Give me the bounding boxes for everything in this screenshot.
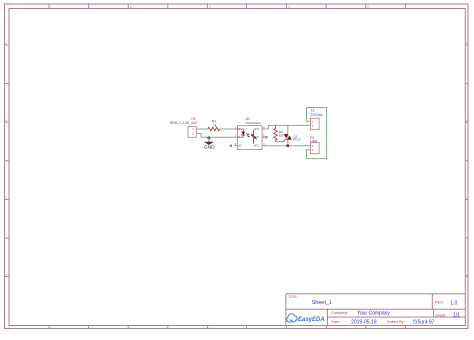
connector P1 pin stubs — [309, 121, 311, 125]
U1 pin names A K NC — [238, 127, 242, 148]
svg-text:f15ur4.97: f15ur4.97 — [413, 320, 434, 326]
svg-text:EasyEDA: EasyEDA — [298, 317, 325, 323]
svg-text:MT2: MT2 — [254, 127, 260, 131]
junction dot triac MT1 — [287, 145, 289, 147]
svg-text:Sheet_1: Sheet_1 — [312, 300, 333, 306]
U1 internal LED cathode lead — [237, 135, 243, 137]
svg-text:NC: NC — [238, 144, 242, 148]
connector P1 pin numbers — [312, 119, 314, 127]
svg-text:MOC3011M: MOC3011M — [246, 121, 262, 125]
svg-text:A: A — [5, 41, 7, 45]
wire U1 pin4 to P2 pin1 — [265, 145, 308, 147]
connector H1 pin stubs — [196, 129, 198, 134]
resistor R1 zigzag — [208, 127, 220, 130]
svg-text:1.0: 1.0 — [450, 300, 457, 306]
connector P1 box — [311, 118, 320, 130]
U1 internal LED triangle — [241, 132, 245, 135]
no-connect cross U1 pin3 — [230, 145, 232, 147]
connector P2 box — [311, 142, 320, 154]
frame column numbers bottom — [51, 326, 211, 330]
svg-text:BT137: BT137 — [293, 138, 302, 142]
triac Q1 triangles — [284, 134, 291, 139]
svg-text:HDR-F-2.54_1x2: HDR-F-2.54_1x2 — [170, 121, 197, 125]
connector H1 pin numbers — [192, 127, 194, 136]
frame column numbers top — [51, 5, 370, 9]
wire R2 bottom to triac gate — [276, 141, 284, 143]
svg-text:REV:: REV: — [435, 300, 444, 304]
U1 pin numbers left 1 2 3 — [235, 125, 237, 146]
svg-text:Date:: Date: — [331, 320, 340, 324]
svg-text:Sheet:: Sheet: — [435, 313, 446, 317]
wire U1 pin6 up to top rail — [265, 125, 308, 129]
wire H1 pin2 jog down — [199, 134, 235, 138]
U1 internal LED cathode bar — [241, 134, 245, 136]
U1 internal triac bar — [253, 130, 255, 144]
svg-text:1/1: 1/1 — [453, 313, 460, 319]
EasyEDA logo cloud — [287, 314, 298, 322]
U1 internal triac gate stub — [256, 138, 257, 139]
triac Q1 vertical line — [287, 125, 289, 145]
svg-text:Load: Load — [310, 139, 318, 143]
svg-text:2019-05-18: 2019-05-18 — [351, 319, 377, 325]
junction dot at GND node — [208, 137, 211, 140]
resistor R2 vertical with leads — [274, 125, 277, 141]
U1 right pin stubs — [262, 129, 265, 146]
U1 internal triac triangles — [251, 134, 256, 138]
wire mains loop P1 pin1 to P2 pin2 — [306, 108, 326, 159]
wire R1 to U1 pin1 — [220, 128, 235, 130]
frame row letters left — [5, 41, 8, 277]
U1 emission arrow 1 — [246, 133, 249, 134]
frame ticks top edge — [49, 4, 405, 9]
svg-text:1k: 1k — [213, 123, 217, 127]
svg-text:MT1: MT1 — [254, 144, 260, 148]
title block outline — [286, 294, 465, 326]
connector P2 pin numbers — [312, 144, 314, 152]
svg-text:A: A — [466, 41, 468, 45]
frame ticks right edge — [465, 45, 468, 277]
wire H1 pin1 to R1 — [199, 128, 208, 130]
U1 internal LED anode lead — [237, 129, 243, 132]
connector H1 box — [188, 127, 196, 138]
svg-text:220Vac: 220Vac — [311, 113, 323, 117]
frame ticks left edge — [5, 45, 10, 277]
connector P2 pin stubs — [309, 146, 311, 150]
frame row letters right — [466, 41, 469, 277]
svg-text:GND: GND — [204, 144, 215, 150]
frame ticks bottom edge — [49, 326, 405, 329]
svg-text:TITLE:: TITLE: — [288, 295, 298, 299]
no-connect cross U1 pin5 — [265, 136, 267, 138]
optocoupler U1 box — [237, 126, 262, 150]
svg-text:Drawn By:: Drawn By: — [387, 320, 405, 324]
svg-text:Your Company: Your Company — [357, 310, 390, 316]
U1 emission arrow 2 — [247, 136, 250, 137]
svg-text:B: B — [466, 118, 468, 122]
EasyEDA logo dot — [290, 319, 293, 322]
triac Q1 gate lead — [283, 139, 288, 141]
ground symbol — [205, 142, 213, 145]
U1 pin names MT2 NC MT1 — [254, 127, 260, 148]
wire GND drop — [208, 137, 210, 142]
U1 pin numbers right 6 5 4 — [263, 125, 265, 146]
U1 left pin stubs — [234, 129, 237, 146]
svg-text:Company:: Company: — [331, 311, 348, 315]
svg-text:330: 330 — [279, 133, 284, 137]
svg-text:B: B — [5, 118, 7, 122]
